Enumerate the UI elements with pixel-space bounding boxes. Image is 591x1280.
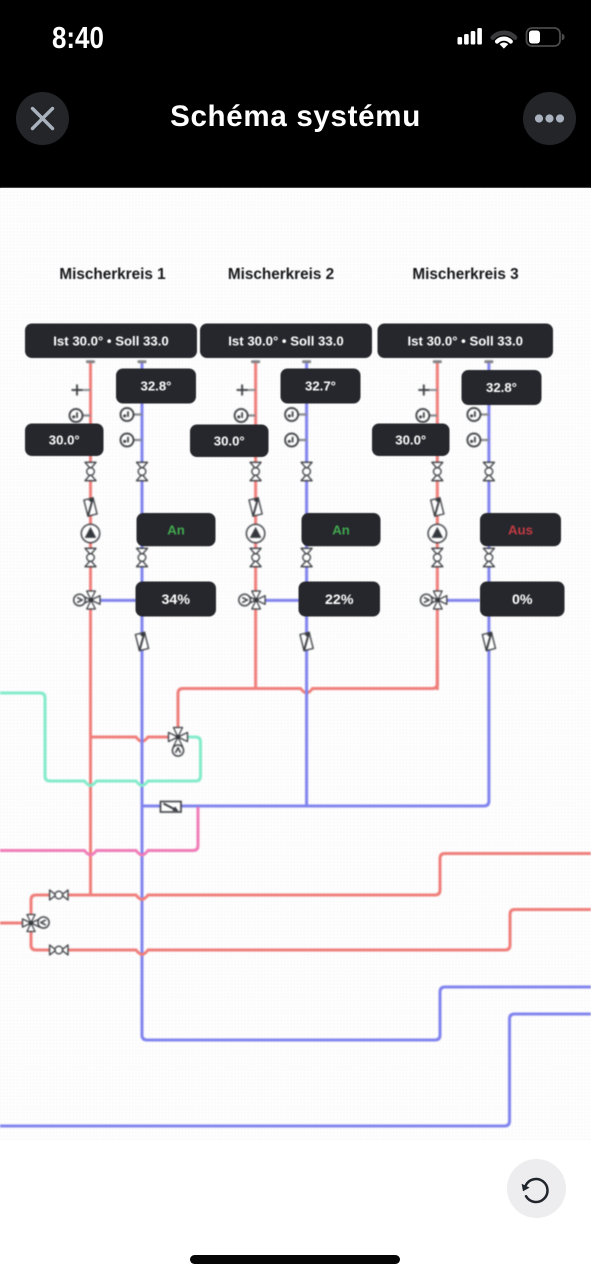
valve shutoff return MK1	[137, 462, 148, 480]
wire pink sensor line	[0, 807, 198, 855]
sensor plus MK1	[72, 385, 91, 396]
more (...) button	[523, 92, 576, 145]
valve shutoff return MK3	[483, 462, 494, 480]
node stub tick 2	[138, 360, 147, 363]
pump MK3	[428, 524, 446, 542]
close button	[16, 92, 69, 145]
sensor thermometer return-b MK1	[121, 434, 143, 447]
home indicator	[190, 1255, 400, 1264]
pump MK2	[246, 524, 264, 542]
pill MK1 room temp	[25, 424, 104, 457]
sensor thermometer supply MK3	[416, 409, 437, 422]
status icons	[0, 0, 591, 60]
valve shutoff supply MK2	[250, 462, 261, 480]
node stub tick 1	[86, 360, 95, 363]
wire red stub to boiler valve	[0, 922, 24, 925]
valve shutoff return-2 MK3	[483, 548, 494, 566]
wire MK3 return (blue vertical)	[487, 363, 490, 801]
wire MK1 valve-to-pill stub	[100, 599, 137, 602]
pill MK2 room temp	[190, 425, 269, 458]
sensor thermometer return-a MK2	[285, 408, 307, 421]
node stub tick 5	[433, 360, 442, 363]
wire MK3 valve-to-pill stub	[446, 599, 480, 602]
pill MK3 room temp	[372, 424, 450, 457]
flow direction symbol	[161, 802, 182, 813]
close X glyph	[33, 108, 53, 128]
pill MK2 flow temp	[281, 369, 361, 404]
pill MK2 valve percent	[299, 582, 381, 617]
refresh floating button	[507, 1159, 566, 1218]
sensor thermometer return-b MK2	[285, 434, 307, 447]
valve shutoff boiler bottom	[50, 945, 68, 955]
rotate/refresh icon	[522, 1179, 548, 1202]
sensor thermometer supply MK1	[70, 409, 91, 422]
pill MK3 flow temp	[462, 370, 542, 405]
wire red boiler flow bottom (y=950)	[31, 910, 591, 955]
sensor plus MK3	[418, 385, 437, 396]
wire MK2 supply (red vertical)	[254, 363, 257, 689]
pill MK1 pump state	[137, 513, 216, 546]
check valve supply MK3	[431, 498, 444, 516]
sensor thermometer return-a MK3	[467, 408, 489, 421]
valve shutoff boiler top	[50, 890, 68, 900]
wire red MK1-to-valve (horizontal y=737)	[91, 737, 171, 742]
wire blue return to boiler (bottom path)	[142, 987, 591, 1040]
wire MK1 return (blue vertical)	[141, 363, 144, 1037]
valve shutoff supply-2 MK1	[85, 548, 96, 566]
header bar	[0, 0, 591, 188]
pill MK1 Ist/Soll	[25, 324, 197, 359]
valve shutoff supply MK1	[85, 462, 96, 480]
pill MK2 pump state	[302, 513, 381, 546]
wire MK3 supply (red vertical)	[436, 363, 439, 690]
status time	[52, 21, 104, 56]
sensor plus MK2	[237, 385, 256, 396]
valve shutoff return-2 MK1	[137, 548, 148, 566]
mixing valve manifold	[169, 728, 188, 747]
node stub tick 6	[484, 360, 493, 363]
valve shutoff supply-2 MK2	[250, 548, 261, 566]
wire red boiler flow top (y=895)	[31, 854, 591, 919]
check valve return MK1	[135, 632, 148, 650]
valve shutoff return MK2	[301, 462, 312, 480]
pill MK1 flow temp	[116, 369, 196, 404]
check valve supply MK2	[249, 498, 262, 516]
sensor thermometer return-a MK1	[121, 408, 143, 421]
wire MK2 return (blue vertical)	[305, 363, 308, 808]
wire supply manifold (red horizontal y=688)	[178, 660, 437, 728]
wire return header (blue horizontal y=806)	[142, 801, 489, 806]
wifi icon	[493, 33, 515, 49]
pump MK1	[81, 524, 99, 542]
node stub tick 4	[302, 360, 311, 363]
pill MK1 valve percent	[136, 582, 217, 617]
wire MK2 valve-to-pill stub	[265, 599, 300, 602]
sensor thermometer return-b MK3	[467, 434, 489, 447]
wire MK1 supply (red vertical)	[89, 363, 92, 897]
mixing valve MK3	[429, 591, 447, 609]
screen title	[0, 100, 591, 134]
node stub tick 3	[251, 360, 260, 363]
battery icon	[527, 28, 565, 46]
mixing valve MK1	[82, 591, 100, 609]
check valve supply MK1	[84, 498, 97, 516]
pill MK3 Ist/Soll	[378, 324, 554, 359]
pill MK3 valve percent	[480, 582, 565, 617]
check valve return MK3	[482, 632, 495, 650]
valve shutoff supply-2 MK3	[432, 548, 443, 566]
pill MK3 pump state	[480, 513, 561, 546]
boiler mixing valve	[23, 915, 40, 932]
sensor thermometer supply MK2	[235, 409, 256, 422]
check valve return MK2	[300, 632, 313, 650]
signal bars	[458, 37, 463, 45]
wire blue bottom feed (y=1126)	[0, 1014, 591, 1126]
wire teal valve bypass	[0, 693, 201, 786]
ellipsis dots	[534, 114, 563, 122]
pill MK2 Ist/Soll	[200, 324, 372, 359]
valve shutoff supply MK3	[432, 462, 443, 480]
mixing valve MK2	[247, 591, 265, 609]
valve shutoff return-2 MK2	[301, 548, 312, 566]
